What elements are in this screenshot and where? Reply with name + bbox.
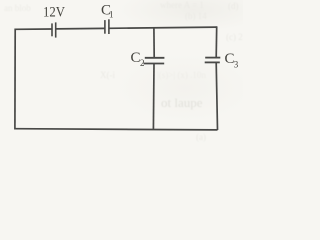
capacitor C3 top plate bbox=[205, 57, 220, 59]
wire: top left segment bbox=[15, 28, 52, 30]
wire: right edge upper (to C3) bbox=[215, 26, 218, 57]
battery 12V right plate bbox=[55, 22, 57, 37]
capacitor C1 left plate bbox=[104, 20, 106, 34]
faint scan tint top-right bbox=[118, 0, 268, 32]
capacitor C1 right plate bbox=[108, 19, 110, 34]
svg-text:ot laupe: ot laupe bbox=[161, 95, 203, 110]
capacitor C2 top plate bbox=[145, 57, 165, 59]
wire: C2 branch lower bbox=[152, 64, 155, 130]
svg-text:|(s)>| (x) .10n: |(s)>| (x) .10n bbox=[157, 70, 206, 80]
wire: top right segment bbox=[109, 27, 217, 28]
svg-text:where A = 1: where A = 1 bbox=[160, 0, 204, 10]
wire: bottom edge bbox=[15, 129, 218, 130]
capacitor C2 bottom plate bbox=[144, 63, 165, 65]
svg-text:3: 3 bbox=[234, 59, 239, 69]
svg-text:(d): (d) bbox=[228, 1, 239, 11]
wire: left edge bbox=[14, 29, 16, 130]
svg-text:(b) 14: (b) 14 bbox=[185, 11, 207, 21]
svg-text:2: 2 bbox=[140, 58, 145, 68]
svg-text:an blob: an blob bbox=[4, 3, 31, 13]
paper background bbox=[0, 0, 243, 147]
wire: C2 branch upper bbox=[153, 28, 155, 58]
capacitor C3 bottom plate bbox=[205, 61, 220, 63]
svg-text:C: C bbox=[131, 50, 141, 66]
svg-text:12V: 12V bbox=[43, 5, 65, 21]
wire: top middle segment bbox=[56, 27, 105, 30]
svg-text:X(-i: X(-i bbox=[100, 70, 115, 80]
svg-text:(c) 2: (c) 2 bbox=[226, 32, 243, 42]
svg-text:1: 1 bbox=[109, 10, 114, 20]
wire: right edge lower (from C3) bbox=[216, 62, 217, 130]
svg-text:(a): (a) bbox=[196, 132, 206, 142]
battery 12V left plate bbox=[51, 23, 53, 36]
faint scan tint mid-right bbox=[115, 53, 255, 123]
